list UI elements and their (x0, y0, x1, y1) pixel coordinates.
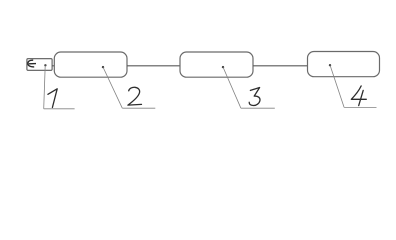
leader dot 4 (329, 64, 331, 66)
label 4 (351, 86, 366, 99)
leader line 2 (103, 68, 122, 109)
label 2 (128, 87, 142, 105)
wire connector to block 2 (52, 65, 55, 67)
label 4 stem (359, 90, 364, 105)
underline 2 (122, 107, 155, 109)
underline 3 (241, 107, 275, 109)
underline 1 (44, 108, 75, 110)
wire block 3 to block 4 (253, 65, 308, 67)
underline 4 (344, 106, 376, 108)
connector 1 mating face icon (28, 60, 34, 67)
leader dot 3 (222, 66, 224, 68)
leader line 4 (330, 66, 344, 108)
leader dot 2 (102, 66, 104, 68)
leader line 3 (223, 68, 241, 109)
block 3 (180, 52, 253, 77)
connector 1 body (27, 59, 52, 71)
connector 1 center pin (29, 63, 36, 65)
label 1 (48, 89, 57, 108)
block 4 (308, 52, 380, 77)
block 2 (54, 52, 127, 77)
leader line 1 (44, 66, 46, 109)
leader dot 1 (44, 64, 46, 66)
wire block 2 to block 3 (127, 65, 180, 67)
label 3 (249, 88, 260, 106)
